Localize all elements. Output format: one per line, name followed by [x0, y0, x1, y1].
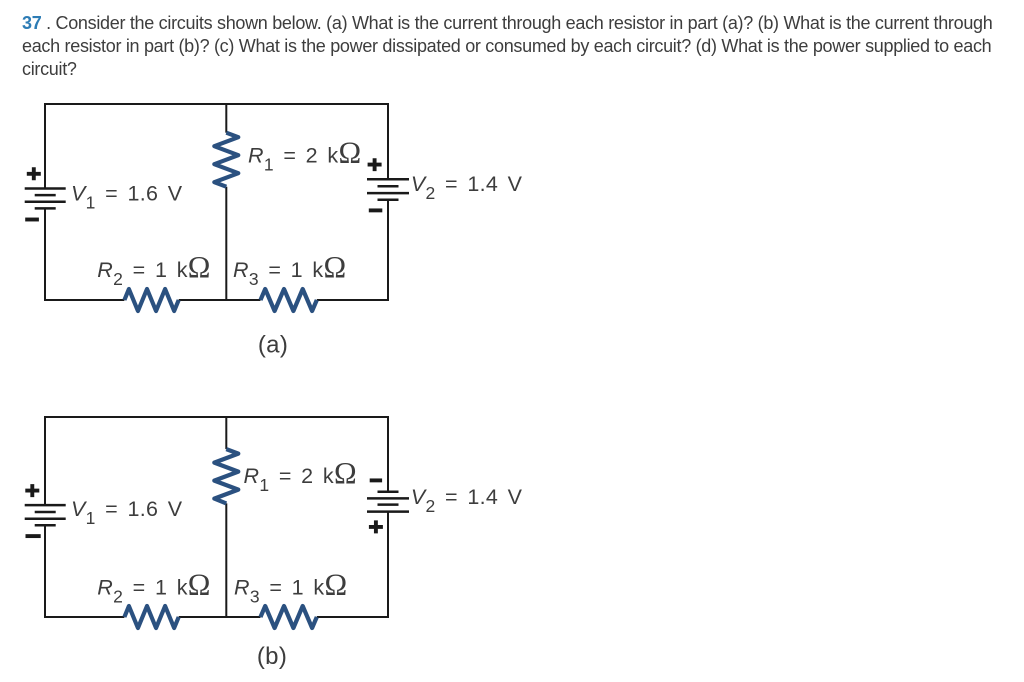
resistor R1 (circuit b, vertical zigzag): [214, 449, 238, 503]
svg-text:R1 = 2 kΩ: R1 = 2 kΩ: [248, 136, 361, 175]
resistor R2 (circuit a, horizontal zigzag): [124, 289, 178, 311]
svg-text:V1 = 1.6 V: V1 = 1.6 V: [71, 497, 183, 528]
svg-text:V2 = 1.4 V: V2 = 1.4 V: [411, 485, 523, 516]
svg-text:(b): (b): [257, 643, 287, 670]
wire: circuit b bottom-right from R3 up to V2 bottom: [317, 512, 388, 617]
plus sign V2 (circuit b): [369, 520, 383, 533]
wire: circuit a left wire below V1 and bottom-left to R2: [45, 208, 124, 300]
resistor R2 (circuit b, horizontal zigzag): [124, 606, 178, 628]
battery V2 (circuit a): [367, 179, 409, 200]
wire: circuit a middle branch below R1: [225, 187, 227, 300]
battery V1 (circuit b): [25, 505, 66, 525]
wire: circuit a top loop (left wire up, top wire, right wire down to V2): [45, 104, 388, 189]
svg-text:R2 = 1 kΩ: R2 = 1 kΩ: [97, 567, 210, 606]
svg-text:V1 = 1.6 V: V1 = 1.6 V: [71, 181, 183, 212]
resistor R3 (circuit a, horizontal zigzag): [261, 289, 317, 311]
wire: circuit a bottom between R2 and R3: [179, 299, 261, 301]
plus sign V1 (circuit b): [25, 484, 39, 497]
svg-text:V2 = 1.4 V: V2 = 1.4 V: [411, 172, 523, 203]
svg-text:R2 = 1 kΩ: R2 = 1 kΩ: [97, 250, 210, 289]
wire: circuit b middle branch above R1: [225, 417, 227, 449]
minus sign V1 (circuit b): [26, 534, 41, 538]
resistor R3 (circuit b, horizontal zigzag): [261, 606, 317, 628]
wire: circuit a middle branch above R1: [225, 104, 227, 133]
svg-text:R1 = 2 kΩ: R1 = 2 kΩ: [244, 456, 357, 495]
svg-text:R3 = 1 kΩ: R3 = 1 kΩ: [233, 250, 346, 289]
wire: circuit b middle branch below R1: [225, 503, 227, 617]
battery V2 (circuit b, reversed polarity): [367, 492, 409, 512]
wire: circuit b bottom between R2 and R3: [179, 616, 261, 618]
plus sign V1 (circuit a): [27, 167, 41, 180]
resistor R1 (circuit a, vertical zigzag): [214, 133, 238, 187]
svg-text:(a): (a): [258, 332, 288, 359]
problem statement text: [22, 12, 992, 81]
wire: circuit a bottom-right from R3 up to V2 bottom: [317, 200, 388, 300]
plus sign V2 (circuit a): [368, 158, 382, 171]
minus sign V2 (circuit b): [370, 478, 382, 482]
battery V1 (circuit a): [25, 189, 66, 209]
wire: circuit b top loop (left wire up, top wire, right wire down to V2): [45, 417, 388, 505]
svg-text:R3 = 1 kΩ: R3 = 1 kΩ: [234, 567, 347, 606]
wire: circuit b left wire below V1 and bottom-left to R2: [45, 525, 124, 617]
minus sign V2 (circuit a): [369, 208, 383, 212]
minus sign V1 (circuit a): [25, 218, 39, 222]
